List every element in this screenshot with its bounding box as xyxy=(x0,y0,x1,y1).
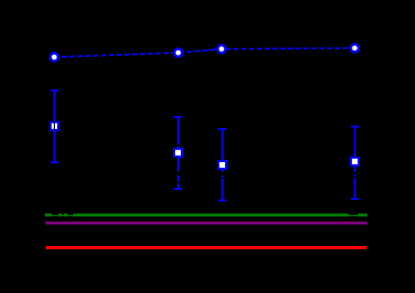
blue dashed trend line xyxy=(54,48,355,57)
green dashed thick line xyxy=(45,214,367,217)
green thin baseline xyxy=(45,215,368,217)
error bar E2 xyxy=(174,117,182,189)
square marker S3 xyxy=(217,160,227,170)
square marker S1 xyxy=(49,121,59,131)
data point P1 (circle marker) xyxy=(49,52,60,63)
data point P2 (circle marker) xyxy=(173,47,184,58)
square marker S2 xyxy=(173,148,183,158)
data point P3 (circle marker) xyxy=(216,44,227,55)
purple horizontal line xyxy=(46,222,368,225)
error bar E4 xyxy=(351,127,359,200)
red horizontal line xyxy=(46,246,367,249)
data point P4 (circle marker) xyxy=(349,43,360,54)
error bar E1 xyxy=(50,91,58,163)
square marker S4 xyxy=(350,157,360,167)
error bar E3 xyxy=(218,129,226,201)
